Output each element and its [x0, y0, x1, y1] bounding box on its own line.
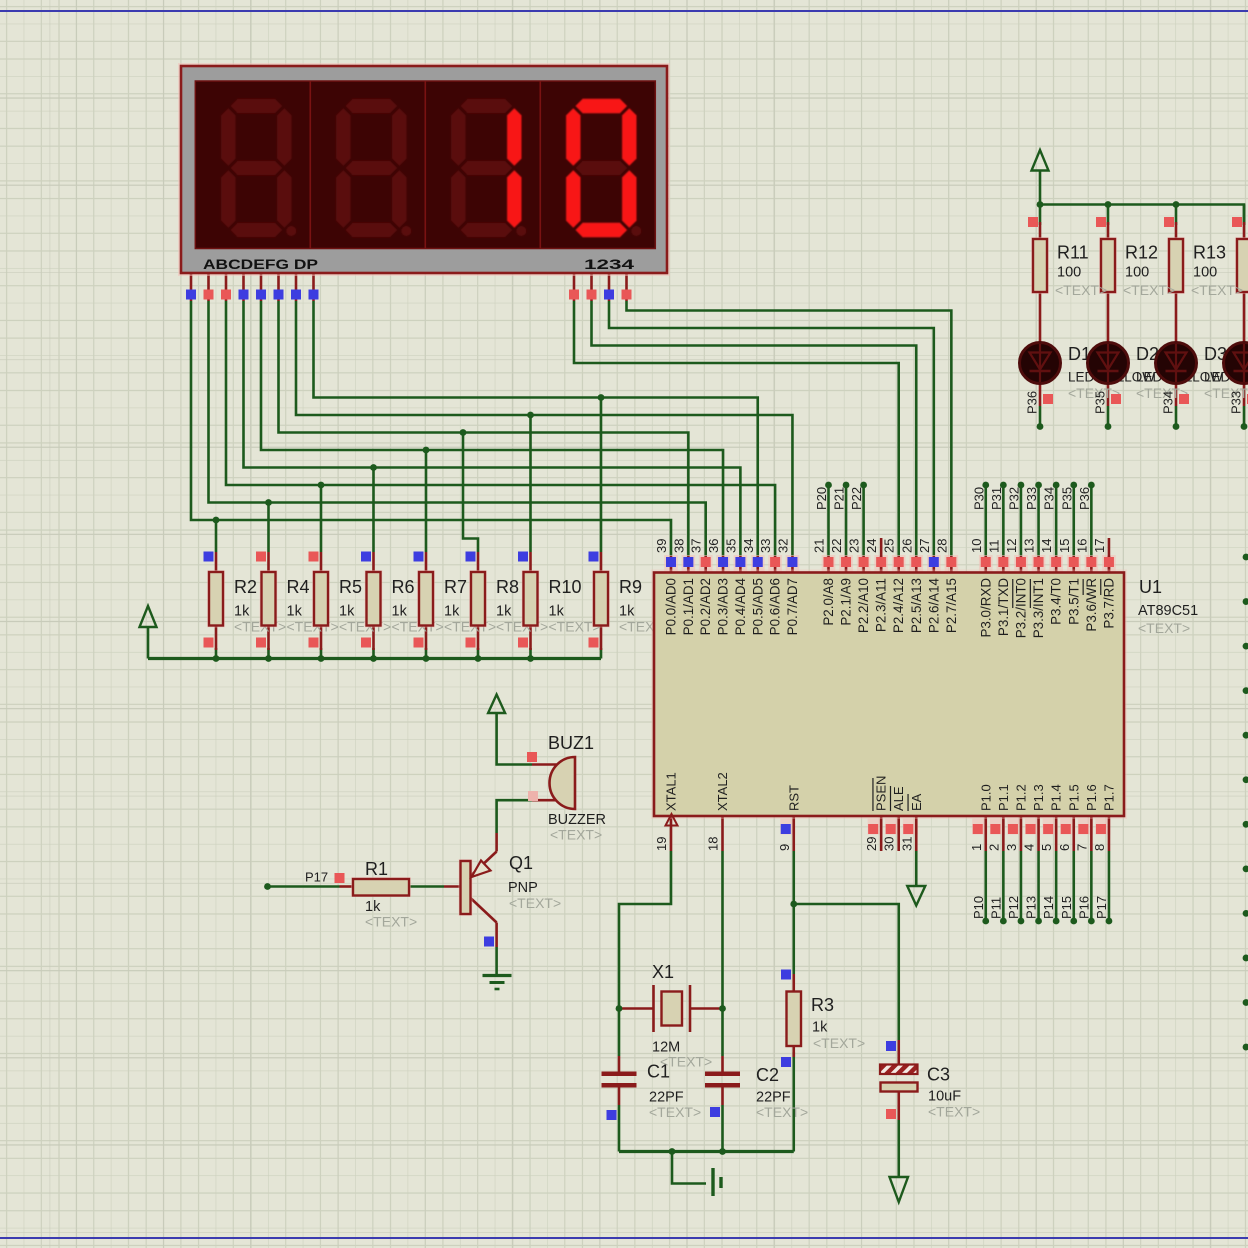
svg-text:R9: R9: [619, 577, 642, 597]
svg-text:P0.0/AD0: P0.0/AD0: [664, 578, 679, 635]
svg-text:U1: U1: [1139, 577, 1162, 597]
svg-text:P14: P14: [1041, 896, 1056, 919]
svg-text:PSEN: PSEN: [874, 776, 889, 811]
svg-text:R10: R10: [549, 577, 582, 597]
svg-text:P0.6/AD6: P0.6/AD6: [768, 578, 783, 635]
svg-text:<TEXT>: <TEXT>: [756, 1104, 808, 1120]
svg-text:1k: 1k: [392, 604, 408, 620]
svg-text:P3.3/INT1: P3.3/INT1: [1031, 578, 1046, 638]
svg-text:P35: P35: [1093, 391, 1108, 414]
svg-text:100: 100: [1057, 265, 1081, 281]
svg-text:P0.7/AD7: P0.7/AD7: [785, 578, 800, 635]
svg-text:P3.4/T0: P3.4/T0: [1049, 578, 1064, 625]
svg-text:1k: 1k: [496, 604, 512, 620]
svg-text:13: 13: [1022, 539, 1037, 553]
svg-text:P1.3: P1.3: [1031, 784, 1046, 811]
svg-text:P33: P33: [1024, 487, 1039, 510]
svg-text:30: 30: [882, 837, 897, 851]
svg-text:28: 28: [934, 539, 949, 553]
svg-text:C3: C3: [927, 1065, 950, 1085]
svg-text:<TEXT>: <TEXT>: [1138, 620, 1190, 636]
svg-text:1k: 1k: [549, 604, 565, 620]
svg-text:5: 5: [1039, 844, 1054, 851]
svg-text:26: 26: [899, 539, 914, 553]
svg-text:100: 100: [1193, 265, 1217, 281]
svg-text:10uF: 10uF: [928, 1089, 961, 1105]
svg-text:P30: P30: [971, 487, 986, 510]
svg-text:ABCDEFG DP: ABCDEFG DP: [203, 257, 318, 272]
svg-text:Q1: Q1: [509, 853, 533, 873]
svg-text:P2.5/A13: P2.5/A13: [909, 578, 924, 633]
svg-text:P17: P17: [305, 870, 328, 885]
svg-text:P31: P31: [989, 487, 1004, 510]
svg-text:PNP: PNP: [508, 880, 538, 896]
svg-text:<TEXT>: <TEXT>: [813, 1035, 865, 1051]
svg-text:P2.7/A15: P2.7/A15: [944, 578, 959, 633]
svg-text:<TEXT>: <TEXT>: [928, 1104, 980, 1120]
svg-text:4: 4: [1022, 844, 1037, 851]
svg-text:<TEXT>: <TEXT>: [1123, 282, 1175, 298]
svg-text:<TEXT>: <TEXT>: [1055, 282, 1107, 298]
svg-text:16: 16: [1074, 539, 1089, 553]
svg-text:P21: P21: [832, 487, 847, 510]
svg-text:1k: 1k: [444, 604, 460, 620]
svg-text:P32: P32: [1006, 487, 1021, 510]
svg-text:P3.1/TXD: P3.1/TXD: [996, 578, 1011, 636]
svg-text:19: 19: [654, 837, 669, 851]
svg-text:100: 100: [1125, 265, 1149, 281]
svg-text:P3.6/WR: P3.6/WR: [1084, 578, 1099, 632]
svg-text:P0.3/AD3: P0.3/AD3: [716, 578, 731, 635]
svg-text:RST: RST: [786, 785, 801, 811]
svg-text:ALE: ALE: [891, 786, 906, 811]
svg-text:R4: R4: [287, 577, 310, 597]
svg-text:6: 6: [1057, 844, 1072, 851]
svg-text:P0.1/AD1: P0.1/AD1: [681, 578, 696, 635]
svg-text:P1.2: P1.2: [1013, 784, 1028, 811]
svg-text:<TEXT>: <TEXT>: [365, 914, 417, 930]
svg-text:R13: R13: [1193, 243, 1226, 263]
svg-text:1k: 1k: [619, 604, 635, 620]
svg-text:3: 3: [1004, 844, 1019, 851]
svg-text:12: 12: [1004, 539, 1019, 553]
svg-text:1k: 1k: [287, 604, 303, 620]
svg-text:15: 15: [1057, 539, 1072, 553]
svg-text:P33: P33: [1229, 391, 1244, 414]
svg-text:18: 18: [706, 837, 721, 851]
svg-text:R7: R7: [444, 577, 467, 597]
svg-text:22: 22: [829, 539, 844, 553]
svg-text:P1.6: P1.6: [1084, 784, 1099, 811]
svg-text:P0.4/AD4: P0.4/AD4: [733, 577, 748, 635]
svg-text:BUZ1: BUZ1: [548, 733, 594, 753]
svg-text:P16: P16: [1076, 896, 1091, 919]
svg-text:P0.5/AD5: P0.5/AD5: [750, 578, 765, 635]
svg-text:29: 29: [864, 837, 879, 851]
svg-text:R5: R5: [339, 577, 362, 597]
svg-text:36: 36: [706, 539, 721, 553]
svg-text:7: 7: [1074, 844, 1089, 851]
svg-text:R12: R12: [1125, 243, 1158, 263]
svg-text:P1.5: P1.5: [1066, 784, 1081, 811]
svg-text:P2.4/A12: P2.4/A12: [891, 578, 906, 633]
svg-text:R3: R3: [811, 995, 834, 1015]
svg-text:1k: 1k: [812, 1020, 828, 1036]
svg-text:R8: R8: [496, 577, 519, 597]
svg-text:8: 8: [1092, 844, 1107, 851]
svg-text:14: 14: [1039, 539, 1054, 553]
svg-text:24: 24: [864, 539, 879, 553]
svg-text:9: 9: [777, 844, 792, 851]
svg-text:23: 23: [847, 539, 862, 553]
svg-text:1k: 1k: [339, 604, 355, 620]
svg-text:XTAL2: XTAL2: [715, 772, 730, 811]
svg-text:AT89C51: AT89C51: [1138, 603, 1198, 619]
svg-text:C2: C2: [756, 1065, 779, 1085]
svg-text:21: 21: [812, 539, 827, 553]
svg-text:<TEXT>: <TEXT>: [1191, 282, 1243, 298]
svg-text:P1.0: P1.0: [978, 784, 993, 811]
svg-text:37: 37: [689, 539, 704, 553]
svg-text:35: 35: [723, 539, 738, 553]
svg-text:R2: R2: [234, 577, 257, 597]
svg-text:<TEXT>: <TEXT>: [649, 1104, 701, 1120]
svg-text:1k: 1k: [234, 604, 250, 620]
svg-text:P1.1: P1.1: [996, 784, 1011, 811]
svg-text:P1.4: P1.4: [1049, 784, 1064, 811]
svg-text:P20: P20: [814, 487, 829, 510]
svg-text:P3.7/RD: P3.7/RD: [1101, 578, 1116, 629]
svg-text:17: 17: [1092, 539, 1107, 553]
svg-text:P2.3/A11: P2.3/A11: [874, 578, 889, 632]
svg-text:P22: P22: [849, 487, 864, 510]
svg-text:P15: P15: [1059, 896, 1074, 919]
svg-text:P2.2/A10: P2.2/A10: [856, 578, 871, 633]
svg-text:P17: P17: [1094, 896, 1109, 919]
svg-text:31: 31: [899, 837, 914, 851]
svg-text:1: 1: [969, 844, 984, 851]
svg-text:1234: 1234: [584, 257, 635, 272]
svg-text:<TEXT>: <TEXT>: [509, 895, 561, 911]
svg-text:P13: P13: [1024, 896, 1039, 919]
svg-text:P34: P34: [1161, 391, 1176, 414]
svg-text:P0.2/AD2: P0.2/AD2: [698, 578, 713, 635]
svg-text:R11: R11: [1057, 243, 1089, 263]
svg-text:XTAL1: XTAL1: [664, 772, 679, 811]
svg-text:EA: EA: [909, 793, 924, 811]
svg-text:P36: P36: [1077, 487, 1092, 510]
svg-text:X1: X1: [652, 962, 674, 982]
svg-text:11: 11: [986, 540, 1001, 554]
svg-text:P34: P34: [1042, 487, 1057, 510]
svg-text:39: 39: [654, 539, 669, 553]
svg-text:P1.7: P1.7: [1101, 784, 1116, 811]
svg-text:P3.2/INT0: P3.2/INT0: [1013, 578, 1028, 638]
svg-text:R1: R1: [365, 859, 388, 879]
svg-text:P12: P12: [1006, 896, 1021, 919]
svg-text:P3.0/RXD: P3.0/RXD: [978, 578, 993, 638]
svg-text:P11: P11: [988, 897, 1003, 919]
svg-text:<TEXT>: <TEXT>: [550, 827, 602, 843]
svg-text:P36: P36: [1025, 391, 1040, 414]
svg-text:C1: C1: [647, 1062, 670, 1082]
svg-text:P10: P10: [971, 896, 986, 919]
svg-text:38: 38: [671, 539, 686, 553]
svg-text:2: 2: [986, 844, 1001, 851]
svg-text:P35: P35: [1059, 487, 1074, 510]
svg-text:33: 33: [758, 539, 773, 553]
svg-text:P2.1/A9: P2.1/A9: [839, 578, 854, 626]
svg-text:P2.0/A8: P2.0/A8: [821, 578, 836, 626]
svg-text:10: 10: [969, 539, 984, 553]
svg-text:P2.6/A14: P2.6/A14: [926, 577, 941, 633]
svg-text:34: 34: [741, 539, 756, 553]
svg-text:32: 32: [775, 539, 790, 553]
svg-text:25: 25: [882, 539, 897, 553]
svg-text:27: 27: [917, 539, 932, 553]
svg-text:P3.5/T1: P3.5/T1: [1066, 578, 1081, 625]
svg-text:R6: R6: [392, 577, 415, 597]
